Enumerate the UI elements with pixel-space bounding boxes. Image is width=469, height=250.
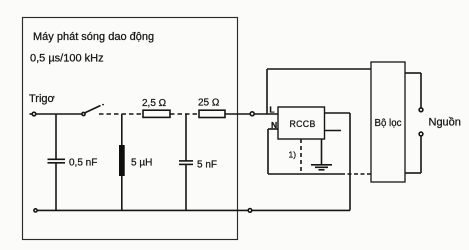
svg-text:5 µH: 5 µH <box>131 158 152 169</box>
svg-text:Máy phát sóng dao động: Máy phát sóng dao động <box>33 31 154 43</box>
svg-text:5 nF: 5 nF <box>197 160 217 171</box>
svg-text:Trigơ: Trigơ <box>29 93 55 105</box>
svg-text:2,5 Ω: 2,5 Ω <box>142 98 167 109</box>
svg-text:1): 1) <box>289 150 297 160</box>
svg-text:RCCB: RCCB <box>290 119 316 129</box>
svg-text:L: L <box>269 104 274 114</box>
svg-text:Bộ lọc: Bộ lọc <box>375 118 402 129</box>
svg-text:Nguồn: Nguồn <box>429 117 461 129</box>
svg-text:0,5 nF: 0,5 nF <box>69 158 97 169</box>
svg-text:25 Ω: 25 Ω <box>198 98 220 109</box>
svg-text:N: N <box>271 120 277 130</box>
svg-text:0,5 µs/100 kHz: 0,5 µs/100 kHz <box>30 53 104 65</box>
